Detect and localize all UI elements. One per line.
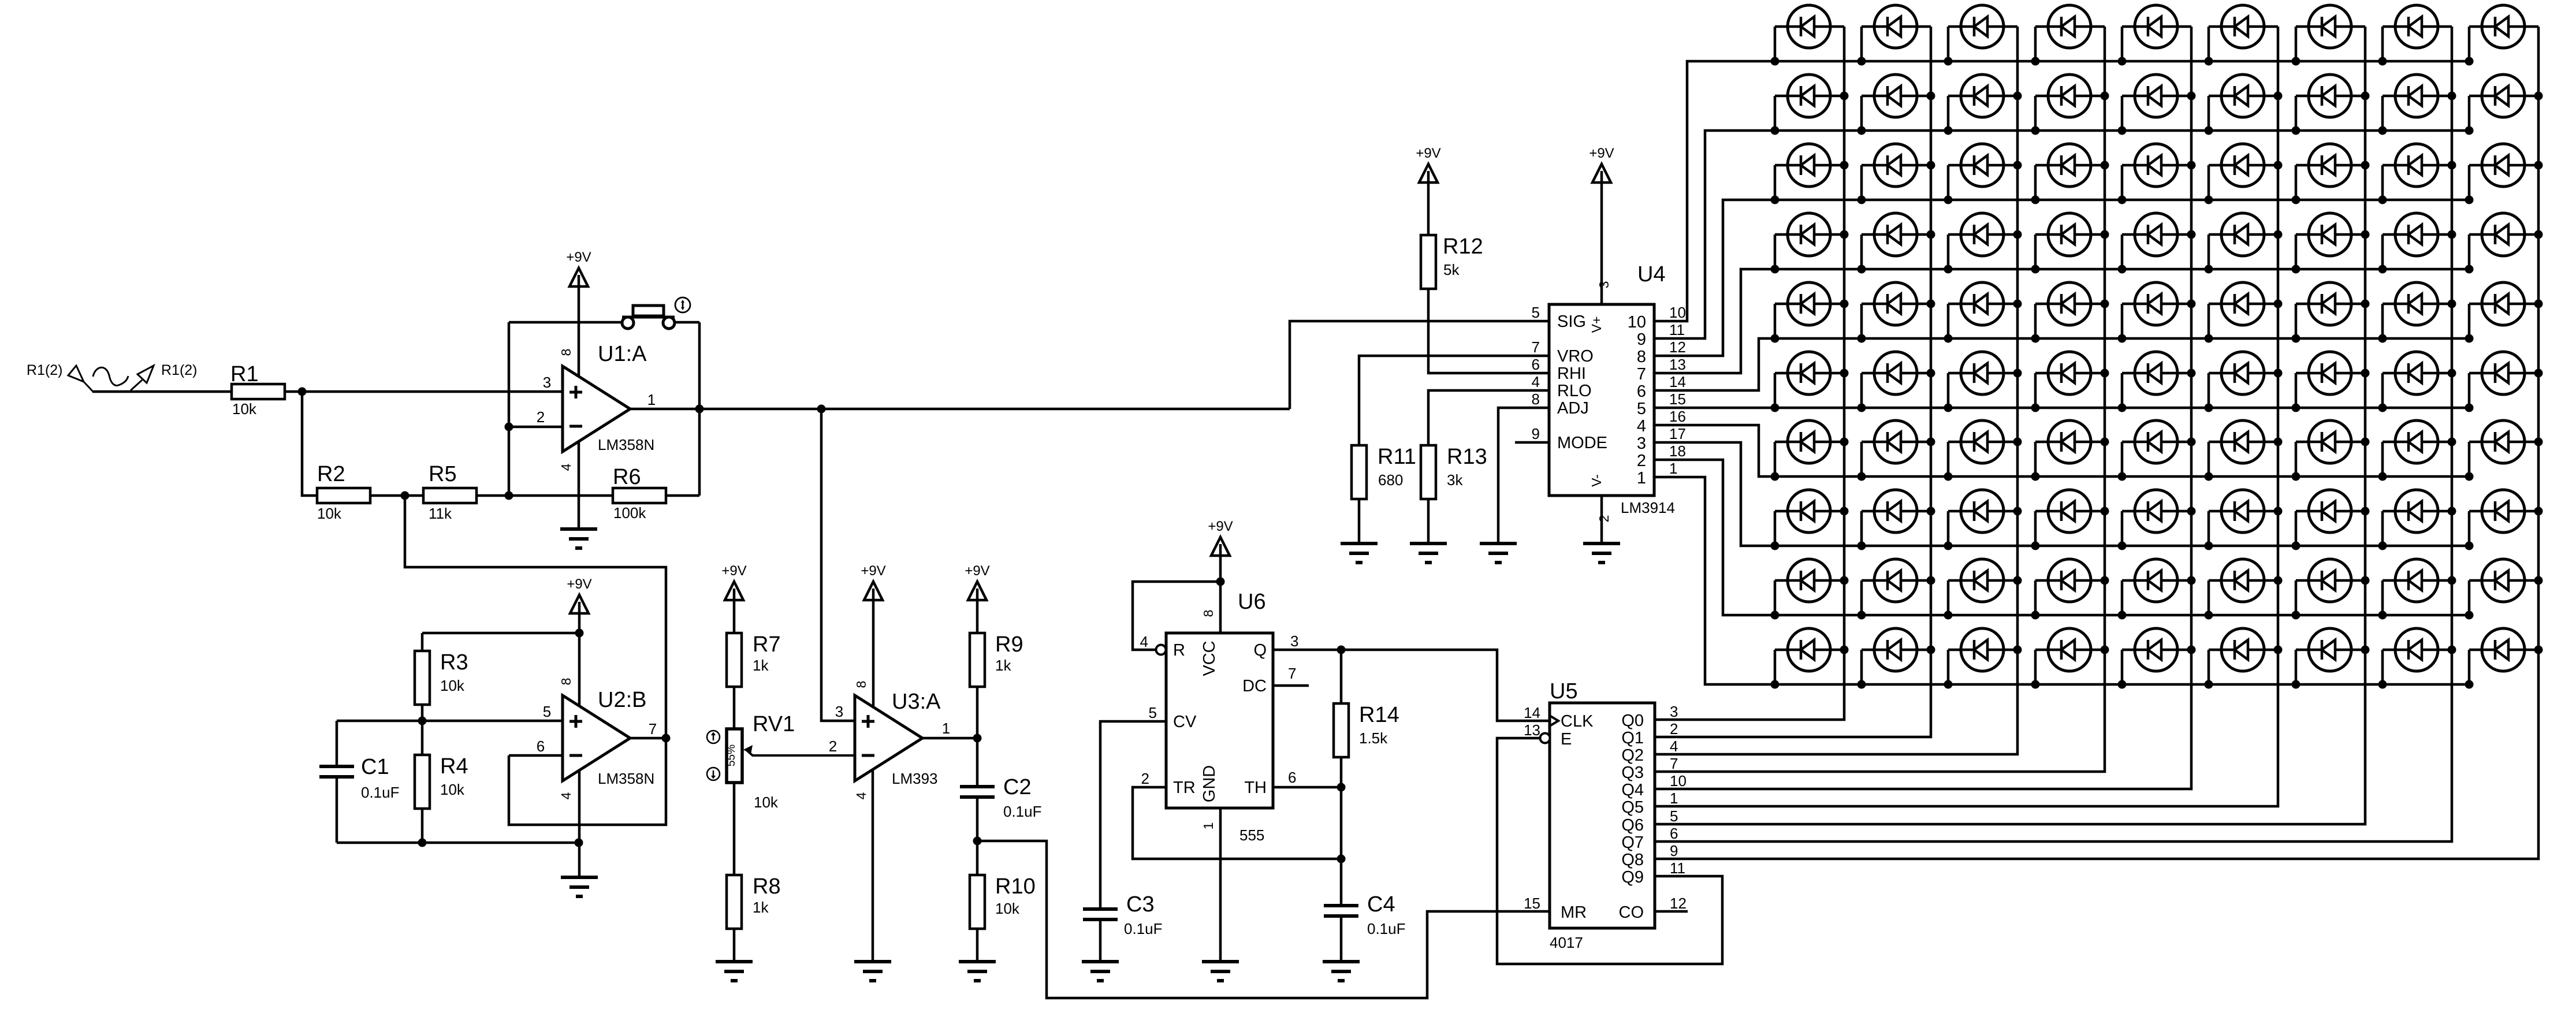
svg-text:R3: R3 — [440, 650, 468, 675]
svg-text:12: 12 — [1669, 338, 1686, 356]
svg-text:6: 6 — [1637, 382, 1646, 401]
svg-text:1k: 1k — [995, 657, 1011, 674]
svg-text:LM393: LM393 — [892, 770, 938, 787]
svg-text:RHI: RHI — [1557, 364, 1586, 383]
svg-text:10k: 10k — [440, 677, 465, 694]
svg-text:LM3914: LM3914 — [1621, 499, 1675, 516]
svg-text:R1(2): R1(2) — [161, 362, 198, 378]
svg-text:10k: 10k — [440, 781, 465, 798]
svg-text:C1: C1 — [361, 755, 389, 779]
svg-text:U4: U4 — [1637, 262, 1666, 286]
svg-text:2: 2 — [1670, 720, 1678, 738]
svg-text:5: 5 — [1532, 304, 1540, 321]
svg-text:VRO: VRO — [1557, 347, 1594, 366]
svg-text:1: 1 — [1201, 822, 1216, 830]
svg-text:LM358N: LM358N — [598, 436, 654, 453]
svg-text:100k: 100k — [613, 504, 646, 522]
svg-text:R8: R8 — [753, 874, 781, 899]
svg-text:+9V: +9V — [567, 576, 591, 592]
svg-text:C2: C2 — [1003, 775, 1032, 799]
svg-text:5k: 5k — [1443, 261, 1460, 278]
svg-text:Q0: Q0 — [1621, 712, 1644, 730]
svg-text:SIG: SIG — [1557, 312, 1586, 331]
svg-text:Q9: Q9 — [1621, 868, 1644, 887]
svg-text:7: 7 — [1288, 665, 1296, 682]
svg-text:6: 6 — [1288, 769, 1296, 786]
svg-text:+9V: +9V — [965, 563, 989, 579]
svg-text:R4: R4 — [440, 754, 468, 779]
svg-text:11: 11 — [1670, 859, 1685, 877]
svg-text:8: 8 — [1532, 390, 1540, 408]
svg-text:10: 10 — [1669, 304, 1686, 321]
svg-text:1: 1 — [1670, 790, 1678, 807]
svg-text:R14: R14 — [1359, 703, 1399, 727]
svg-text:C3: C3 — [1126, 892, 1155, 917]
svg-text:Q6: Q6 — [1621, 816, 1644, 835]
svg-text:U6: U6 — [1238, 590, 1266, 614]
svg-text:11k: 11k — [429, 505, 452, 522]
svg-text:14: 14 — [1669, 373, 1686, 390]
svg-text:Q1: Q1 — [1621, 729, 1644, 747]
svg-text:RV1: RV1 — [753, 712, 795, 736]
svg-text:2: 2 — [1637, 452, 1646, 470]
svg-text:15: 15 — [1669, 390, 1686, 408]
svg-text:14: 14 — [1524, 704, 1540, 721]
svg-text:2: 2 — [1596, 515, 1611, 523]
svg-text:R1(2): R1(2) — [27, 362, 63, 378]
svg-text:10k: 10k — [317, 505, 342, 522]
svg-text:5: 5 — [1637, 400, 1646, 418]
svg-text:CV: CV — [1173, 713, 1197, 731]
svg-text:8: 8 — [559, 349, 574, 356]
svg-text:10: 10 — [1628, 313, 1646, 332]
svg-text:3: 3 — [1596, 281, 1611, 289]
svg-text:U3:A: U3:A — [892, 690, 941, 714]
svg-text:9: 9 — [1532, 425, 1540, 442]
svg-text:R9: R9 — [995, 632, 1023, 657]
svg-text:10k: 10k — [995, 900, 1020, 917]
svg-text:12: 12 — [1670, 895, 1687, 912]
svg-text:7: 7 — [1670, 755, 1678, 772]
svg-text:+9V: +9V — [1416, 146, 1440, 161]
svg-text:TR: TR — [1173, 779, 1196, 797]
svg-text:0.1uF: 0.1uF — [1367, 920, 1406, 937]
svg-text:CLK: CLK — [1561, 712, 1594, 731]
svg-text:13: 13 — [1669, 356, 1686, 373]
svg-text:R6: R6 — [613, 465, 641, 489]
svg-text:555: 555 — [1239, 826, 1264, 844]
svg-text:1: 1 — [942, 720, 950, 737]
svg-text:10k: 10k — [754, 794, 779, 811]
svg-text:4: 4 — [1140, 633, 1148, 650]
svg-text:3: 3 — [1670, 703, 1678, 720]
svg-text:3: 3 — [1290, 632, 1298, 650]
svg-text:+9V: +9V — [1208, 519, 1233, 534]
svg-text:MR: MR — [1561, 903, 1587, 922]
svg-text:1: 1 — [647, 391, 656, 408]
svg-text:2: 2 — [829, 738, 837, 755]
svg-text:C4: C4 — [1367, 892, 1395, 917]
svg-text:6: 6 — [537, 738, 545, 755]
svg-text:R7: R7 — [753, 632, 781, 657]
svg-text:R2: R2 — [317, 462, 345, 486]
svg-text:16: 16 — [1669, 408, 1686, 425]
svg-text:9: 9 — [1637, 330, 1646, 349]
svg-text:R: R — [1173, 641, 1185, 660]
svg-text:5: 5 — [543, 703, 551, 720]
svg-text:R13: R13 — [1447, 445, 1487, 469]
svg-text:8: 8 — [559, 678, 574, 686]
svg-text:TH: TH — [1244, 779, 1267, 797]
svg-text:Q7: Q7 — [1621, 833, 1644, 852]
svg-text:R11: R11 — [1378, 445, 1416, 469]
svg-text:17: 17 — [1669, 425, 1686, 442]
svg-text:4: 4 — [1532, 373, 1540, 390]
svg-text:0.1uF: 0.1uF — [1003, 803, 1042, 820]
svg-text:V-: V- — [1589, 474, 1604, 487]
svg-text:Q: Q — [1253, 641, 1267, 660]
svg-text:6: 6 — [1670, 825, 1678, 842]
svg-text:4: 4 — [559, 792, 574, 799]
svg-text:LM358N: LM358N — [598, 770, 654, 787]
svg-text:Q5: Q5 — [1621, 798, 1644, 817]
svg-text:Q2: Q2 — [1621, 746, 1644, 765]
svg-text:8: 8 — [1201, 610, 1216, 617]
svg-text:3k: 3k — [1447, 471, 1463, 489]
svg-text:1.5k: 1.5k — [1359, 729, 1388, 747]
svg-text:R1: R1 — [230, 362, 259, 386]
svg-text:3: 3 — [1637, 434, 1646, 453]
svg-text:1: 1 — [1637, 469, 1646, 487]
svg-text:9: 9 — [1670, 842, 1678, 859]
svg-text:R12: R12 — [1443, 234, 1483, 259]
svg-text:7: 7 — [649, 720, 657, 738]
svg-text:+9V: +9V — [1589, 146, 1614, 161]
svg-text:R10: R10 — [995, 874, 1036, 899]
svg-text:10k: 10k — [232, 400, 257, 418]
svg-text:8: 8 — [1637, 348, 1646, 366]
svg-text:8: 8 — [854, 681, 869, 688]
svg-text:4: 4 — [559, 463, 574, 471]
svg-text:RLO: RLO — [1557, 382, 1592, 400]
svg-text:1k: 1k — [753, 899, 769, 916]
svg-text:0.1uF: 0.1uF — [361, 784, 400, 801]
svg-text:6: 6 — [1532, 356, 1540, 373]
svg-text:U1:A: U1:A — [598, 342, 647, 366]
svg-text:+9V: +9V — [721, 563, 746, 579]
svg-text:U2:B: U2:B — [598, 688, 646, 712]
svg-text:MODE: MODE — [1557, 434, 1607, 452]
svg-text:GND: GND — [1200, 765, 1219, 802]
svg-text:+9V: +9V — [566, 250, 591, 265]
svg-text:R5: R5 — [429, 462, 457, 486]
svg-text:1: 1 — [1669, 460, 1677, 477]
svg-text:15: 15 — [1524, 895, 1540, 912]
svg-text:4: 4 — [1637, 417, 1646, 435]
svg-text:3: 3 — [835, 703, 843, 720]
svg-text:CO: CO — [1619, 903, 1644, 922]
svg-text:7: 7 — [1532, 338, 1540, 356]
svg-text:13: 13 — [1524, 721, 1540, 739]
svg-text:0.1uF: 0.1uF — [1124, 920, 1163, 937]
svg-text:5: 5 — [1149, 704, 1157, 721]
svg-text:2: 2 — [537, 408, 545, 426]
svg-text:+9V: +9V — [861, 563, 885, 579]
svg-text:11: 11 — [1669, 321, 1685, 338]
svg-text:Q3: Q3 — [1621, 764, 1644, 782]
svg-text:10: 10 — [1670, 772, 1687, 790]
svg-text:1k: 1k — [753, 657, 769, 674]
svg-text:V+: V+ — [1589, 317, 1604, 333]
svg-text:2: 2 — [1141, 770, 1149, 787]
svg-text:680: 680 — [1378, 471, 1403, 489]
svg-text:Q4: Q4 — [1621, 781, 1644, 799]
svg-text:4: 4 — [854, 792, 869, 799]
svg-text:ADJ: ADJ — [1557, 399, 1589, 418]
svg-text:DC: DC — [1242, 677, 1267, 695]
svg-text:E: E — [1561, 730, 1572, 749]
svg-text:18: 18 — [1669, 442, 1686, 460]
svg-text:5: 5 — [1670, 807, 1678, 825]
svg-text:U5: U5 — [1550, 679, 1578, 703]
svg-text:4: 4 — [1670, 738, 1678, 755]
svg-text:55%: 55% — [725, 744, 738, 766]
svg-text:4017: 4017 — [1550, 934, 1583, 951]
svg-text:Q8: Q8 — [1621, 851, 1644, 869]
svg-text:7: 7 — [1637, 365, 1646, 384]
svg-text:VCC: VCC — [1200, 641, 1219, 676]
svg-text:3: 3 — [543, 374, 551, 391]
